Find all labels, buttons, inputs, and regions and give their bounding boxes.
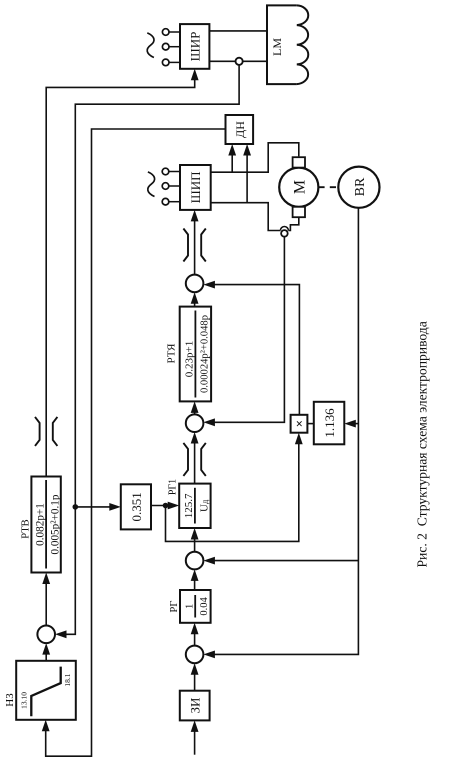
summing junction S2 [186,552,204,570]
wire lower lead to left brush [288,217,298,230]
label RG [169,601,180,613]
svg-text:Рис. 2 Структурная схема элек: Рис. 2 Структурная схема электропривода [415,321,430,567]
block RTYa armature current regulator [180,307,211,402]
wire S1 to RG [191,623,199,646]
block DN voltage divider [226,115,254,144]
field circuit junction terminal [236,58,243,65]
label 13.10 inside NZ [20,692,29,709]
block multiplier [291,415,308,433]
wire RG1 through limiter to S4 [191,432,199,484]
svg-text:0.23p+1: 0.23p+1 [184,341,196,377]
field winding LM [267,5,308,84]
svg-text:1: 1 [185,604,196,609]
wire ShIP upper armature lead to right brush [211,143,299,172]
summing junction S3 [186,275,204,293]
wire voltage tap 2 into DN [243,144,251,203]
svg-text:РТЯ: РТЯ [166,343,178,364]
block RG speed regulator [180,590,211,623]
wire S4 to RTYa [191,401,199,414]
left brush of M [293,207,305,217]
svg-text:Uд: Uд [199,499,211,512]
tilde symbol above ShIR [147,33,154,58]
wire multiplier output to S3 [203,281,299,415]
summing junction S4 [186,414,204,432]
wire EMF line from field junction to S5 [55,65,239,638]
svg-text:0.04: 0.04 [199,596,210,615]
block 0.351 gain [121,484,151,529]
NZ characteristic curve [31,667,60,717]
wire current feedback from armature terminal to S4 [203,237,284,427]
wire ShIR left output to LM [209,60,267,62]
junction dot on EMF line [73,504,79,510]
svg-text:0.005p²+0.1p: 0.005p²+0.1p [49,494,61,554]
junction dot on 0.351-RG1 wire [163,503,169,509]
wire ZI to S1 [191,663,199,691]
wire S5 to RTV [42,573,50,626]
svg-text:ЗИ: ЗИ [188,698,203,714]
svg-text:LM: LM [270,38,284,56]
wire BR speed feedback line [203,207,358,659]
svg-text:0.082p+1: 0.082p+1 [34,503,46,546]
svg-text:РГ: РГ [169,601,180,613]
wire DN output to NZ input [42,129,226,756]
block NZ nonlinear element [16,661,76,720]
label RTYa [166,343,178,364]
svg-text:ДН: ДН [233,121,247,138]
armature current terminal [281,230,288,237]
block ZI (intensity setter) [180,691,210,721]
limiter after RG1 [183,443,205,476]
caption [415,321,430,567]
summing junction S5 [37,626,55,644]
wire voltage tap 1 into DN [228,144,236,172]
svg-text:1.136: 1.136 [322,408,337,438]
label NZ [4,693,16,707]
ac terminals of ShIR [162,29,180,66]
speed sensor BR [338,167,379,208]
summing junction S1 [186,646,204,664]
svg-text:0.00024p²+0.048p: 0.00024p²+0.048p [200,315,211,393]
wire input setpoint into ZI [191,720,199,754]
block ShIP (PWM converter) [180,165,211,210]
svg-text:0.351: 0.351 [129,492,144,521]
wire flux branch to multiplier [166,433,303,542]
wire RTYa to S3 [191,292,199,306]
svg-text:×: × [292,420,307,427]
svg-text:BR: BR [353,177,368,196]
label RTV [21,519,32,538]
right brush of M [293,157,305,167]
block RG1 divider [179,484,210,528]
svg-text:13.10: 13.10 [20,692,29,709]
wire S3 through limiter to ShIP [191,210,199,275]
label RG1 [168,479,179,495]
wire RTV through limiter to ShIR [46,69,198,477]
svg-text:РГ1: РГ1 [168,479,179,495]
wire NZ to S5 [42,643,50,661]
block 1.136 gain [314,402,345,445]
limiter after RTV [35,417,57,446]
svg-text:18.1: 18.1 [63,673,72,686]
block RTV field current regulator [31,477,61,573]
svg-text:НЗ: НЗ [4,693,16,707]
wire 1.136 to multiplier stub [307,423,313,425]
block ShIR (PWM field regulator) [180,24,209,69]
wire branch from EMF line into 0.351 [75,503,121,511]
wire dashed shaft M to BR [318,186,338,188]
limiter before ShIP [183,229,205,262]
wire 0.351 to RG1 [151,502,179,510]
wire ShIR right output to LM [209,30,267,32]
svg-text:125.7: 125.7 [183,493,195,518]
wire bridge hump over armature terminal [280,227,288,231]
wire RG to S2 [191,569,199,590]
wire S2 to RG1 [191,528,199,552]
svg-text:М: М [292,180,309,194]
wire branch speed feedback to 1.136 [344,420,358,428]
svg-text:ШИП: ШИП [188,171,203,203]
tilde symbol above ShIP [148,172,155,197]
motor M [279,168,318,207]
ac terminals of ShIP [162,168,180,205]
wire ShIP lower armature lead [211,203,281,231]
svg-text:РТВ: РТВ [21,519,32,538]
svg-text:ШИР: ШИР [188,32,203,62]
wire branch speed feedback to S2 [203,557,358,565]
label 18.1 inside NZ [63,673,72,686]
